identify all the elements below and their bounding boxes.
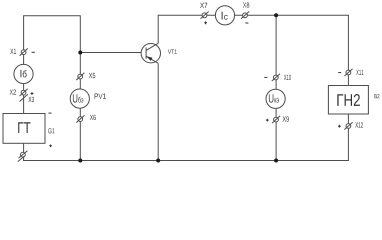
ammeter Ib <box>14 64 33 83</box>
transistor VT1 <box>141 43 160 63</box>
terminal X10 <box>272 74 280 81</box>
label X7 polarity plus <box>204 21 207 24</box>
terminal GT output socket <box>18 151 27 159</box>
wire bottom rail <box>23 160 349 162</box>
label X11 <box>356 70 363 75</box>
terminal X6 <box>76 115 84 122</box>
terminal X1 <box>20 48 28 55</box>
wire emitter vertical <box>157 63 159 161</box>
node junction base X5 branch <box>78 51 82 55</box>
label VT1 <box>168 50 177 54</box>
label X12 polarity plus <box>338 125 341 128</box>
terminal X2 <box>20 89 28 96</box>
wire X5 branch vertical upper <box>79 15 81 89</box>
label X6 <box>90 115 96 120</box>
node junction bottom rail Uke branch <box>274 159 278 163</box>
label X2 <box>10 90 16 95</box>
label X8 <box>243 2 249 7</box>
node junction bottom rail X5 branch <box>78 159 82 163</box>
current source GT box G1 <box>3 114 45 144</box>
wire collector vertical <box>157 15 159 44</box>
label X11 polarity minus <box>338 72 341 74</box>
label X3 <box>29 97 35 102</box>
terminal X11 <box>344 69 352 76</box>
label X5 <box>89 73 96 78</box>
wire top rail left <box>24 15 81 17</box>
node junction top rail Uke branch <box>274 13 278 17</box>
wire left vertical between ammeter and GT box <box>23 84 25 114</box>
label X7 <box>200 3 207 8</box>
terminal X3 pin <box>20 94 28 101</box>
terminal X12 <box>344 122 352 129</box>
terminal GT output pin <box>18 156 25 162</box>
voltmeter PV1 Ube <box>70 89 89 108</box>
label G1 polarity plus <box>49 145 52 148</box>
wire base lead <box>80 52 146 54</box>
label X9 polarity plus <box>266 119 269 122</box>
wire top rail right <box>158 14 348 16</box>
label X10 polarity minus <box>264 76 267 78</box>
label X9 <box>283 116 289 121</box>
label G1 polarity minus <box>49 112 52 114</box>
terminal X5 <box>76 73 84 80</box>
voltmeter Uke <box>266 89 285 108</box>
terminal X8 <box>241 12 249 19</box>
terminal X7 <box>201 12 209 19</box>
label X2 polarity plus <box>31 92 34 95</box>
label X10 <box>284 75 291 80</box>
label G1 <box>48 128 54 133</box>
label B2 <box>375 94 380 98</box>
wire X5 branch vertical lower <box>79 108 81 161</box>
ammeter Ic <box>215 6 234 25</box>
label PV1 <box>95 94 106 99</box>
wire right vertical upper to GN2 box <box>347 15 349 86</box>
terminal X9 <box>272 116 280 123</box>
label X12 <box>355 122 363 127</box>
wire right vertical lower from GN2 box <box>347 114 349 161</box>
label X8 polarity minus <box>245 22 248 24</box>
node junction bottom rail emitter <box>156 159 160 163</box>
label X1 polarity minus <box>32 51 35 53</box>
wire GT box bottom leg <box>23 143 25 160</box>
wire left vertical upper segment <box>23 15 25 64</box>
voltage source GN2 box <box>328 86 368 115</box>
label X1 <box>10 49 16 54</box>
wire Uke branch vertical lower <box>275 108 277 161</box>
wire Uke branch vertical upper <box>275 15 277 90</box>
